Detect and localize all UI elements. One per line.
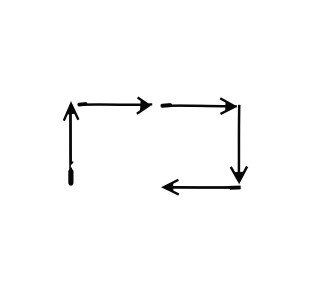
wire: top-left horizontal arrow shaft <box>78 104 152 105</box>
arrowhead: second right arrow tip <box>220 98 235 114</box>
wire: top-right horizontal arrow shaft <box>162 105 237 106</box>
arrowhead: down arrow tip <box>231 167 247 184</box>
wire: small pen-lift gap on left shaft <box>71 165 73 168</box>
wire: bottom horizontal arrow shaft <box>169 186 241 189</box>
arrowhead: up arrow tip <box>64 102 79 120</box>
wire: left vertical arrow shaft <box>70 106 73 186</box>
wire: right vertical arrow shaft <box>238 105 241 173</box>
arrowhead: left arrow tip <box>162 180 179 195</box>
arrowhead: first right arrow tip <box>137 98 150 114</box>
